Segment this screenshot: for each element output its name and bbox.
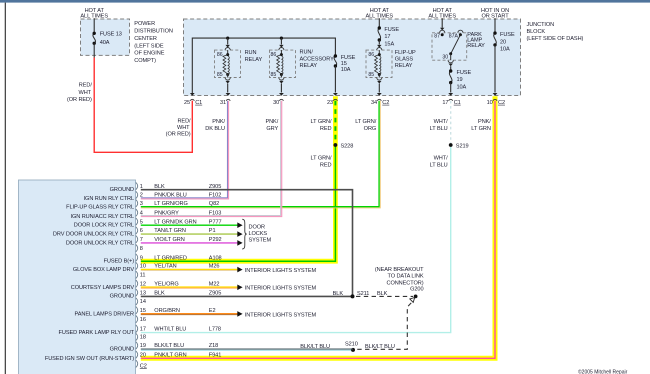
label JUNCTION BLOCK — [527, 22, 584, 42]
svg-text:10: 10 — [487, 100, 493, 106]
splice S211 — [351, 294, 355, 298]
wire YEL/TAN row 10 — [141, 268, 238, 270]
svg-text:P1: P1 — [209, 228, 216, 234]
svg-text:TAN/LT GRN: TAN/LT GRN — [154, 228, 186, 234]
park relay common wire — [450, 54, 452, 60]
svg-text:6: 6 — [140, 228, 143, 234]
svg-text:15A: 15A — [384, 41, 394, 47]
svg-text:WHT/: WHT/ — [434, 156, 448, 162]
svg-text:S219: S219 — [456, 144, 469, 150]
svg-text:TO DATA LINK: TO DATA LINK — [387, 274, 423, 280]
svg-text:WHT: WHT — [177, 125, 190, 131]
wire PNK/DK BLU pin31 to row 2 — [141, 101, 229, 199]
svg-text:(OR RED): (OR RED) — [67, 97, 92, 103]
splice S219 — [449, 143, 453, 147]
svg-text:GLOVE BOX LAMP DRV: GLOVE BOX LAMP DRV — [73, 267, 135, 273]
svg-text:FLIP-UP: FLIP-UP — [395, 50, 416, 56]
svg-text:INTERIOR LIGHTS SYSTEM: INTERIOR LIGHTS SYSTEM — [245, 286, 317, 292]
run relay coil — [227, 50, 229, 55]
svg-text:10A: 10A — [341, 67, 351, 73]
svg-text:23: 23 — [327, 100, 333, 106]
svg-text:LT BLU: LT BLU — [430, 162, 448, 168]
fuse F17 wire top — [378, 18, 380, 28]
svg-text:(OR RED): (OR RED) — [166, 132, 191, 138]
svg-text:(LEFT SIDE OF DASH): (LEFT SIDE OF DASH) — [527, 36, 584, 42]
pin 25 arrowhead — [190, 93, 195, 96]
svg-text:10A: 10A — [457, 85, 467, 91]
fuse F13 label — [100, 32, 122, 46]
svg-text:PNK/: PNK/ — [265, 119, 278, 125]
fuse F20 label — [500, 32, 515, 53]
svg-text:1: 1 — [140, 184, 143, 190]
svg-text:FLIP-UP GLASS RLY CTRL: FLIP-UP GLASS RLY CTRL — [66, 205, 134, 211]
run relay output wire — [227, 75, 229, 78]
svg-text:31: 31 — [220, 100, 226, 106]
run relay label — [245, 50, 263, 63]
svg-text:LT GRN/: LT GRN/ — [311, 119, 333, 125]
label LT GRN/RED below S228 — [311, 156, 333, 169]
ground arrow into G200 — [410, 298, 415, 303]
connector teeth — [136, 182, 138, 367]
svg-text:ORG: ORG — [364, 126, 377, 132]
svg-text:Z18: Z18 — [209, 343, 218, 349]
svg-text:BLK: BLK — [154, 290, 165, 296]
svg-text:DOOR UNLOCK RLY CTRL: DOOR UNLOCK RLY CTRL — [66, 240, 134, 246]
flip-up relay output wire — [378, 75, 380, 78]
svg-text:LT GRN/DK GRN: LT GRN/DK GRN — [154, 219, 196, 225]
svg-text:FUSE 13: FUSE 13 — [100, 32, 122, 38]
pin 17 arrowhead — [448, 93, 453, 96]
svg-text:ACCESSORY: ACCESSORY — [300, 57, 335, 63]
svg-text:14: 14 — [140, 299, 146, 305]
svg-text:16: 16 — [140, 317, 146, 323]
splice S210 — [351, 348, 355, 352]
svg-text:FUSED B(+): FUSED B(+) — [104, 259, 135, 265]
ground G200 — [414, 295, 418, 299]
fuse F19 label — [457, 70, 472, 91]
svg-text:WHT: WHT — [79, 90, 92, 96]
svg-text:17: 17 — [384, 34, 390, 40]
wire WHT/LT BLU pin17 to row 17 — [450, 101, 452, 145]
door locks brace — [242, 219, 247, 249]
pin 34 arrowhead — [377, 93, 382, 96]
svg-text:BLK: BLK — [377, 291, 388, 297]
fuse F15 element — [334, 56, 337, 66]
svg-text:PNK/GRY: PNK/GRY — [154, 210, 179, 216]
svg-text:FUSE: FUSE — [384, 27, 399, 33]
svg-text:©2005 Mitchell Repair: ©2005 Mitchell Repair — [578, 369, 628, 374]
label WHT/LT BLU below S219 — [430, 156, 448, 169]
svg-text:F941: F941 — [209, 352, 221, 358]
dashed path G200 to S210 — [356, 303, 411, 349]
svg-text:17: 17 — [140, 327, 146, 333]
svg-text:GLASS: GLASS — [395, 56, 414, 62]
run/accessory relay coil — [280, 50, 282, 55]
svg-text:C2: C2 — [382, 100, 389, 106]
svg-text:3: 3 — [140, 201, 143, 207]
svg-text:LT GRN: LT GRN — [471, 126, 491, 132]
wire TAN/LT GRN row 6 — [141, 233, 238, 235]
svg-text:30: 30 — [442, 55, 448, 61]
svg-text:DISTRIBUTION: DISTRIBUTION — [134, 29, 173, 35]
flip-up glass relay K3 box — [366, 50, 392, 77]
pin 23 arrowhead — [333, 93, 338, 96]
wire BLK/LT BLU row 19 to S210 — [141, 348, 353, 350]
svg-text:20: 20 — [500, 39, 506, 45]
wire VIO/LT GRN row 7 — [141, 242, 238, 244]
window top bar — [0, 0, 650, 3]
svg-text:PNK/: PNK/ — [212, 119, 225, 125]
flip-up glass relay feed arrow — [377, 45, 381, 48]
wire BLK row 1 to S211 — [141, 190, 353, 297]
park relay terminal 87 dome — [440, 30, 445, 33]
node bus/run-acc relay — [280, 37, 283, 40]
pin 25 — [184, 99, 202, 105]
label WHT/LT BLU at pin 17 — [430, 119, 448, 132]
svg-text:RED/: RED/ — [79, 83, 93, 89]
pin 10 — [487, 99, 505, 105]
connector left labels — [45, 187, 135, 362]
svg-text:IGN RUN/ACC RLY CTRL: IGN RUN/ACC RLY CTRL — [71, 214, 134, 220]
pin 23 — [327, 99, 338, 105]
run relay feed wire — [227, 38, 229, 44]
run/accessory relay label — [300, 50, 335, 70]
svg-text:OF ENGINE: OF ENGINE — [134, 51, 164, 57]
svg-text:DOOR LOCK RLY CTRL: DOOR LOCK RLY CTRL — [74, 223, 134, 229]
svg-text:POWER: POWER — [134, 21, 155, 27]
svg-text:FUSE: FUSE — [500, 32, 515, 38]
label PNK/DK BLU at pin 31 — [205, 119, 225, 132]
svg-text:RELAY: RELAY — [395, 63, 413, 69]
connector circuit codes — [209, 184, 222, 359]
wire RED/WHT from fuse 13 to pin 25 — [94, 58, 192, 153]
svg-text:P292: P292 — [209, 237, 222, 243]
svg-text:A108: A108 — [209, 255, 222, 261]
run/accessory relay K2 box — [270, 50, 296, 77]
pin 30 arrowhead — [279, 93, 284, 96]
svg-text:VIO/LT GRN: VIO/LT GRN — [154, 237, 184, 243]
window left frame line — [5, 3, 6, 374]
wire LT GRN/DK GRN row 5 — [141, 224, 238, 226]
svg-text:86: 86 — [217, 52, 223, 58]
svg-text:LT BLU: LT BLU — [430, 126, 448, 132]
label DOOR LOCKS SYSTEM — [249, 225, 272, 244]
svg-text:GROUND: GROUND — [110, 347, 134, 353]
svg-text:17: 17 — [442, 100, 448, 106]
svg-text:4: 4 — [140, 210, 143, 216]
svg-text:9: 9 — [140, 255, 143, 261]
svg-text:85: 85 — [217, 72, 223, 78]
park lamp relay feed wire — [441, 18, 443, 28]
svg-text:PANEL LAMPS DRIVER: PANEL LAMPS DRIVER — [75, 311, 135, 317]
svg-text:RELAY: RELAY — [300, 63, 318, 69]
svg-text:CENTER: CENTER — [134, 36, 157, 42]
instrument panel connector box — [19, 180, 136, 374]
svg-text:C1: C1 — [454, 100, 461, 106]
svg-text:BLK/LT BLU: BLK/LT BLU — [154, 343, 184, 349]
svg-text:11: 11 — [140, 273, 146, 279]
node bus/run relay — [226, 37, 229, 40]
wire BLK row 13 to S211 — [141, 295, 353, 297]
svg-text:7: 7 — [140, 237, 143, 243]
wire YEL/ORG row 12 — [141, 286, 238, 288]
svg-text:40A: 40A — [100, 40, 110, 46]
fuse F19 wire bottom — [450, 83, 452, 93]
flip-up glass relay label — [395, 50, 416, 69]
pin 31 — [220, 99, 230, 105]
svg-text:PNK/LT GRN: PNK/LT GRN — [154, 352, 186, 358]
svg-text:LT GRN/: LT GRN/ — [311, 156, 333, 162]
label HOT AT ALL TIMES (park lamp relay) — [428, 8, 456, 19]
svg-text:10A: 10A — [500, 47, 510, 53]
svg-text:Q82: Q82 — [209, 201, 219, 207]
label LT GRN/RED at pin 23 — [311, 119, 333, 132]
park lamp relay label — [467, 32, 485, 49]
svg-text:BLK: BLK — [154, 184, 165, 190]
svg-text:86: 86 — [271, 52, 277, 58]
svg-text:8: 8 — [140, 246, 143, 252]
junction block box — [184, 19, 521, 96]
svg-text:LT GRN/RED: LT GRN/RED — [154, 255, 187, 261]
svg-text:86: 86 — [368, 52, 374, 58]
svg-text:BLK/LT BLU: BLK/LT BLU — [365, 344, 395, 350]
svg-text:JUNCTION: JUNCTION — [527, 22, 555, 28]
label HOT AT ALL TIMES (fuse 13) — [80, 8, 108, 19]
label RED/WHT (OR RED) left — [67, 83, 92, 103]
pin 31 arrowhead — [226, 93, 231, 96]
park relay switch blade — [451, 35, 461, 54]
svg-text:IGN RUN RLY CTRL: IGN RUN RLY CTRL — [84, 196, 134, 202]
highlighted wire LT GRN/RED pin23 to row 9 — [141, 96, 336, 261]
svg-text:5: 5 — [140, 219, 143, 225]
park lamp relay K4 box — [432, 33, 467, 60]
flip-up glass relay coil — [378, 50, 380, 55]
fuse F20 wire top — [494, 18, 496, 33]
wire ORG/BRN row 15 — [141, 313, 238, 315]
svg-text:S228: S228 — [341, 144, 354, 150]
svg-text:34: 34 — [371, 100, 377, 106]
power distribution center box — [81, 19, 130, 55]
pin 17 — [442, 99, 460, 105]
svg-text:19: 19 — [457, 77, 463, 83]
svg-text:WHT/LT BLU: WHT/LT BLU — [154, 327, 186, 333]
svg-text:COMPT): COMPT) — [134, 58, 156, 64]
fuse F15 wire bottom — [334, 66, 336, 93]
svg-text:GRY: GRY — [266, 126, 278, 132]
svg-text:RED: RED — [320, 126, 332, 132]
label PNK/GRY at pin 30 — [265, 119, 278, 132]
svg-text:DOOR: DOOR — [249, 225, 266, 231]
svg-text:85: 85 — [368, 72, 374, 78]
park relay terminal 87A dome — [458, 30, 463, 33]
ground lead dashed BLK to G200 — [356, 295, 413, 297]
svg-text:85: 85 — [271, 72, 277, 78]
svg-text:C2: C2 — [498, 100, 505, 106]
svg-text:BLK/LT BLU: BLK/LT BLU — [300, 344, 330, 350]
svg-text:L778: L778 — [209, 327, 221, 333]
svg-text:S210: S210 — [345, 341, 358, 347]
svg-text:FUSED PARK LAMP RLY OUT: FUSED PARK LAMP RLY OUT — [59, 330, 135, 336]
svg-text:WHT/: WHT/ — [434, 119, 448, 125]
svg-text:RUN/: RUN/ — [300, 50, 314, 56]
svg-text:13: 13 — [140, 290, 146, 296]
svg-text:LOCKS: LOCKS — [249, 231, 268, 237]
fuse F15 label — [341, 55, 356, 73]
fuse F19 element — [449, 71, 452, 83]
fuse F13 element — [93, 33, 96, 43]
fuse F17 wire bottom — [378, 40, 380, 45]
svg-text:RELAY: RELAY — [245, 57, 263, 63]
svg-text:RUN: RUN — [245, 50, 257, 56]
label HOT AT ALL TIMES (fuse 17) — [366, 8, 394, 19]
svg-text:RELAY: RELAY — [467, 43, 485, 49]
fuse F20 element — [494, 33, 497, 45]
fuse F17 element — [378, 28, 381, 40]
connector pin numbers — [140, 184, 147, 370]
svg-text:FUSE: FUSE — [457, 70, 472, 76]
label PNK/LT GRN at pin 10 — [471, 119, 491, 132]
svg-text:INTERIOR LIGHTS SYSTEM: INTERIOR LIGHTS SYSTEM — [245, 312, 317, 318]
svg-text:2: 2 — [140, 193, 143, 199]
run relay K1 box — [215, 50, 241, 77]
svg-text:PNK/DK BLU: PNK/DK BLU — [154, 193, 187, 199]
svg-text:SYSTEM: SYSTEM — [249, 237, 272, 243]
svg-text:RED/: RED/ — [177, 119, 191, 125]
svg-text:PNK/: PNK/ — [478, 119, 491, 125]
svg-text:CONNECTOR): CONNECTOR) — [386, 280, 423, 286]
splice S228 — [334, 143, 338, 147]
svg-text:18: 18 — [140, 335, 146, 341]
fuse F13 wire top — [93, 18, 95, 33]
label RED/WHT (OR RED) at pin 25 — [166, 119, 191, 138]
svg-text:Z905: Z905 — [209, 290, 221, 296]
fuse F13 wire bottom — [93, 43, 95, 57]
svg-text:(NEAR BREAKOUT: (NEAR BREAKOUT — [375, 267, 424, 273]
svg-text:20: 20 — [140, 352, 146, 358]
svg-text:LT GRN/ORG: LT GRN/ORG — [154, 201, 188, 207]
svg-text:19: 19 — [140, 343, 146, 349]
svg-text:FUSED IGN SW OUT (RUN-START): FUSED IGN SW OUT (RUN-START) — [45, 356, 134, 362]
run/acc relay output wire — [280, 75, 282, 78]
svg-text:C1: C1 — [195, 100, 202, 106]
svg-text:DRV DOOR UNLOCK RLY CTRL: DRV DOOR UNLOCK RLY CTRL — [53, 232, 134, 238]
pin 34 — [371, 99, 389, 105]
svg-text:87: 87 — [434, 34, 440, 40]
pin 10 arrowhead overlay — [493, 93, 498, 96]
run/accessory relay feed wire — [280, 38, 282, 44]
svg-text:GROUND: GROUND — [110, 294, 134, 300]
wire LT GRN/ORG pin34 to row 3 — [141, 101, 379, 207]
label HOT IN ON OR START (fuse 20) — [481, 8, 509, 19]
label LT GRN/ORG at pin 34 — [355, 119, 377, 132]
svg-text:25: 25 — [184, 100, 190, 106]
svg-text:F103: F103 — [209, 210, 221, 216]
svg-text:Z905: Z905 — [209, 184, 221, 190]
wire PNK/GRY pin30 to row 4 — [141, 101, 282, 217]
fuse F20 wire bottom — [494, 45, 496, 93]
label POWER DISTRIBUTION CENTER — [134, 21, 173, 64]
svg-text:(LEFT SIDE: (LEFT SIDE — [134, 43, 164, 49]
svg-text:G200: G200 — [410, 287, 423, 293]
label NEAR BREAKOUT TO DATA LINK CONNECTOR — [375, 267, 424, 287]
connector wire names — [154, 184, 196, 359]
svg-text:LT GRN/: LT GRN/ — [355, 119, 377, 125]
highlighted wire PNK/LT GRN pin10 to row 20 — [141, 96, 495, 358]
fuse F17 label — [384, 27, 399, 48]
svg-text:30: 30 — [273, 100, 279, 106]
svg-text:GROUND: GROUND — [110, 187, 134, 193]
svg-text:BLOCK: BLOCK — [527, 29, 546, 35]
junction block internal bus wire — [192, 38, 335, 95]
svg-text:DK BLU: DK BLU — [205, 126, 225, 132]
svg-text:87A: 87A — [449, 34, 459, 40]
svg-text:BLK: BLK — [333, 291, 344, 297]
svg-text:RED: RED — [320, 162, 332, 168]
svg-text:INTERIOR LIGHTS SYSTEM: INTERIOR LIGHTS SYSTEM — [245, 268, 317, 274]
svg-text:F102: F102 — [209, 193, 221, 199]
svg-text:COURTESY LAMPS DRV: COURTESY LAMPS DRV — [71, 285, 135, 291]
svg-text:P777: P777 — [209, 219, 222, 225]
pin 30 — [273, 99, 283, 105]
svg-text:C2: C2 — [140, 363, 147, 369]
